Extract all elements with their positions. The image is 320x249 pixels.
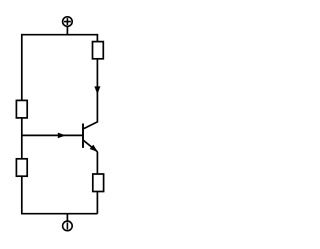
arrow transistor Q1 emitter arrowhead [90, 145, 98, 152]
terminal negative supply (circle with bar) [63, 221, 73, 231]
resistor R4 (lower right, emitter resistor) [93, 174, 104, 192]
wire top rail [22, 34, 98, 36]
wire bottom rail [21, 213, 97, 215]
wire stub to positive supply terminal [66, 27, 68, 35]
resistor R2 (upper left, divider top) [16, 100, 27, 118]
transistor Q1 emitter diagonal [83, 140, 97, 152]
resistor R1 (upper right, collector resistor) [93, 42, 104, 59]
wire left branch vertical [21, 34, 23, 214]
wire collector branch (top-right vertical + diagonal into base bar) [83, 34, 97, 129]
wire base lead from divider node to transistor [22, 134, 82, 136]
resistor R3 (lower left, divider bottom) [16, 159, 27, 176]
wire stub to negative supply terminal [66, 214, 68, 221]
arrow collector current (down) [94, 86, 100, 94]
terminal positive supply (circle with plus) [63, 17, 73, 27]
transistor Q1 base bar [82, 124, 84, 148]
arrow base current (right) [58, 133, 66, 139]
wire emitter branch vertical down to bottom rail [96, 152, 98, 214]
